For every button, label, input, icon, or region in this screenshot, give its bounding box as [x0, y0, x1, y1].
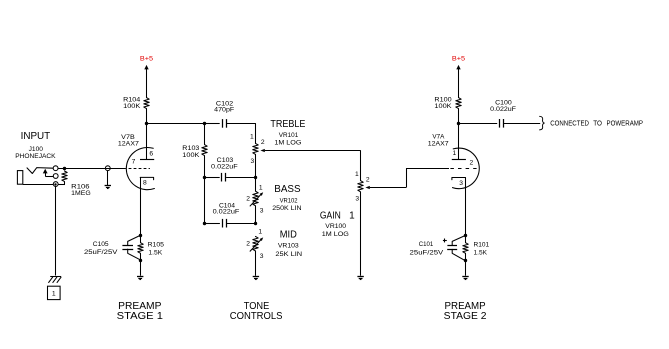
svg-text:PREAMP: PREAMP [118, 301, 162, 312]
ground (input shield) [105, 185, 111, 187]
wire VR100 wiper to V7A grid [406, 168, 408, 187]
svg-text:7: 7 [132, 159, 136, 166]
VR100 wiper arrow [365, 186, 369, 189]
wire V7B cathode down [140, 177, 142, 235]
VR100 labels [322, 223, 349, 238]
V7B cathode (pin 8) [140, 177, 153, 186]
VR103 labels [275, 243, 302, 258]
VR101 labels [274, 132, 301, 146]
node C104 right [254, 222, 257, 225]
node C101/R101 bottom [464, 259, 467, 262]
svg-text:3: 3 [260, 253, 264, 260]
svg-text:1: 1 [355, 171, 359, 178]
capacitor C103 0.022uF [205, 157, 256, 182]
svg-text:100K: 100K [434, 103, 452, 110]
wire node to C102 [205, 123, 220, 125]
svg-text:100K: 100K [123, 103, 141, 110]
wire VR101 to C103 node [255, 154, 257, 177]
svg-text:1M LOG: 1M LOG [274, 139, 301, 146]
resistor R104 [123, 96, 149, 110]
node C103 left [203, 176, 206, 179]
svg-text:C101: C101 [419, 241, 434, 248]
jack terminal circle (tip) [53, 166, 58, 171]
svg-text:R101: R101 [474, 242, 490, 249]
output brace [540, 116, 545, 130]
resistor R106 1MEG [62, 171, 91, 197]
ground (VR100) [357, 276, 363, 278]
power B+5 (stage 2) [452, 55, 466, 97]
V7B plate (pin 6) [140, 150, 154, 159]
svg-text:B+5: B+5 [452, 55, 466, 62]
node C105/R105 top [139, 234, 142, 237]
wire C100 to output [504, 123, 540, 125]
resistor R105 1.5K [138, 235, 164, 260]
ground (stage1 cathode) [137, 276, 143, 278]
triode V7B 12AX7 envelope [126, 147, 154, 189]
capacitor C100 0.022uF [490, 99, 516, 127]
svg-text:PREAMP: PREAMP [445, 301, 486, 312]
label PREAMP STAGE 2 [444, 301, 487, 322]
svg-text:GAIN: GAIN [320, 210, 341, 221]
jack J100 label [15, 146, 56, 160]
svg-text:1.5K: 1.5K [474, 250, 488, 257]
capacitor C102 470pF [214, 100, 234, 127]
phone jack tip contact [27, 168, 53, 174]
svg-text:STAGE 1: STAGE 1 [117, 311, 164, 322]
svg-text:8: 8 [143, 179, 147, 186]
input shield terminal circle [105, 166, 110, 171]
svg-text:1: 1 [349, 210, 355, 221]
svg-text:C105: C105 [93, 241, 109, 248]
V7A label [428, 134, 449, 148]
potentiometer VR102 250K LIN [246, 177, 264, 223]
resistor R103 100K [182, 123, 207, 177]
svg-text:25K LIN: 25K LIN [275, 251, 302, 258]
svg-text:VR100: VR100 [325, 223, 346, 230]
svg-text:BASS: BASS [274, 184, 301, 195]
wire to ground (stage1 cathode) [140, 261, 142, 276]
wire R104 to plate V7B [146, 109, 148, 160]
svg-text:12AX7: 12AX7 [118, 141, 139, 148]
jack terminal circle (switch) [53, 174, 58, 179]
node stage1 plate [145, 122, 148, 125]
svg-text:2: 2 [246, 241, 250, 248]
wire treble wiper to VR100 [360, 150, 362, 180]
svg-text:TONE: TONE [244, 301, 270, 312]
svg-text:PHONEJACK: PHONEJACK [15, 153, 56, 160]
svg-text:VR101: VR101 [279, 132, 299, 139]
svg-text:1MEG: 1MEG [71, 190, 91, 197]
svg-text:1: 1 [259, 184, 263, 191]
jack terminal circle (sleeve) [53, 182, 58, 187]
svg-text:2: 2 [470, 159, 474, 166]
VR101 wiper arrow [260, 149, 264, 152]
VR102 wiper arrow [250, 194, 261, 206]
svg-text:470pF: 470pF [214, 107, 234, 114]
potentiometer VR100 1M LOG [355, 171, 370, 202]
svg-text:1: 1 [52, 291, 56, 298]
svg-text:TO: TO [593, 118, 602, 127]
node R106 top [63, 167, 66, 170]
V7A grid (pin 2) [450, 159, 476, 168]
chassis ground (slashes) [50, 276, 61, 278]
ground (stage2 cathode) [462, 276, 468, 278]
svg-text:J100: J100 [29, 146, 44, 153]
wire input to grid [58, 168, 126, 170]
V7A cathode (pin 3) [452, 178, 466, 188]
svg-text:6: 6 [149, 150, 153, 157]
node C101/R101 top [464, 234, 467, 237]
svg-text:R105: R105 [148, 242, 165, 249]
svg-text:CONTROLS: CONTROLS [230, 311, 283, 322]
resistor R100 [434, 96, 461, 110]
wire R100 to plate V7A [458, 109, 460, 160]
svg-text:TREBLE: TREBLE [270, 119, 305, 130]
capacitor C105 25uF/25V [84, 235, 140, 259]
svg-text:2: 2 [366, 176, 370, 183]
potentiometer VR101 1M LOG [250, 134, 265, 165]
svg-text:0.022uF: 0.022uF [211, 164, 238, 171]
potentiometer VR103 25K LIN [246, 229, 264, 276]
node C104 left [203, 222, 206, 225]
svg-text:VR103: VR103 [278, 243, 299, 250]
svg-text:25uF/25V: 25uF/25V [410, 249, 444, 256]
wire plate node to tone stack [147, 123, 205, 125]
wire shield terminal to ground [107, 171, 109, 186]
tone stack left rail [204, 177, 206, 223]
svg-text:B+5: B+5 [140, 55, 154, 62]
V7B grid (pin 7) [129, 159, 150, 169]
svg-text:1M LOG: 1M LOG [322, 231, 349, 238]
svg-text:2: 2 [261, 139, 265, 146]
wire plate node to C100 [458, 123, 497, 125]
wire C102 to VR101 [226, 123, 256, 125]
ground (VR103) [253, 276, 259, 278]
svg-text:VR102: VR102 [280, 198, 298, 205]
svg-text:POWERAMP: POWERAMP [607, 118, 644, 127]
VR103 wiper arrow [250, 240, 261, 252]
svg-text:INPUT: INPUT [21, 131, 51, 142]
svg-text:25uF/25V: 25uF/25V [84, 249, 118, 256]
wire V7A cathode down [465, 178, 467, 236]
node stage2 plate [457, 122, 460, 125]
capacitor C101 25uF/25V [410, 235, 466, 260]
capacitor C104 0.022uF [205, 203, 256, 228]
label PREAMP STAGE 1 [117, 301, 164, 322]
svg-text:2: 2 [246, 195, 250, 202]
V7B label [118, 134, 139, 148]
node C102 left [203, 122, 206, 125]
svg-text:1: 1 [453, 150, 457, 157]
jack sleeve wire [23, 184, 54, 186]
node C103 right [254, 176, 257, 179]
V7A plate (pin 1) [452, 150, 466, 159]
svg-text:12AX7: 12AX7 [428, 140, 449, 147]
svg-text:1.5K: 1.5K [148, 250, 162, 257]
C101 plus sign [443, 240, 447, 242]
svg-text:0.022uF: 0.022uF [213, 209, 240, 216]
svg-text:1: 1 [258, 229, 262, 236]
svg-text:MID: MID [280, 230, 297, 241]
resistor R101 1.5K [463, 235, 490, 260]
phone jack J100 sleeve body [17, 171, 22, 185]
VR102 labels [272, 198, 301, 212]
svg-text:3: 3 [459, 180, 463, 187]
wire sleeve to R106 bottom [58, 184, 65, 186]
net box 1 [48, 286, 61, 299]
svg-text:CONNECTED: CONNECTED [550, 118, 589, 127]
svg-text:1: 1 [250, 134, 254, 141]
svg-text:0.022uF: 0.022uF [490, 106, 516, 113]
svg-text:250K LIN: 250K LIN [272, 205, 301, 212]
svg-text:3: 3 [355, 195, 359, 202]
wire VR100 to ground [360, 192, 362, 276]
svg-text:3: 3 [251, 158, 255, 165]
svg-text:STAGE 2: STAGE 2 [444, 311, 487, 322]
label TONE CONTROLS [230, 301, 283, 322]
wire sleeve to chassis ground [55, 187, 57, 276]
node C105/R105 bottom [139, 259, 142, 262]
wire to ground (stage2 cathode) [465, 261, 467, 276]
svg-text:3: 3 [260, 208, 264, 215]
phone jack switch arrow [43, 169, 48, 174]
svg-text:100K: 100K [182, 152, 200, 159]
triode V7A 12AX7 envelope [453, 148, 480, 189]
power B+5 (stage 1) [140, 55, 154, 97]
